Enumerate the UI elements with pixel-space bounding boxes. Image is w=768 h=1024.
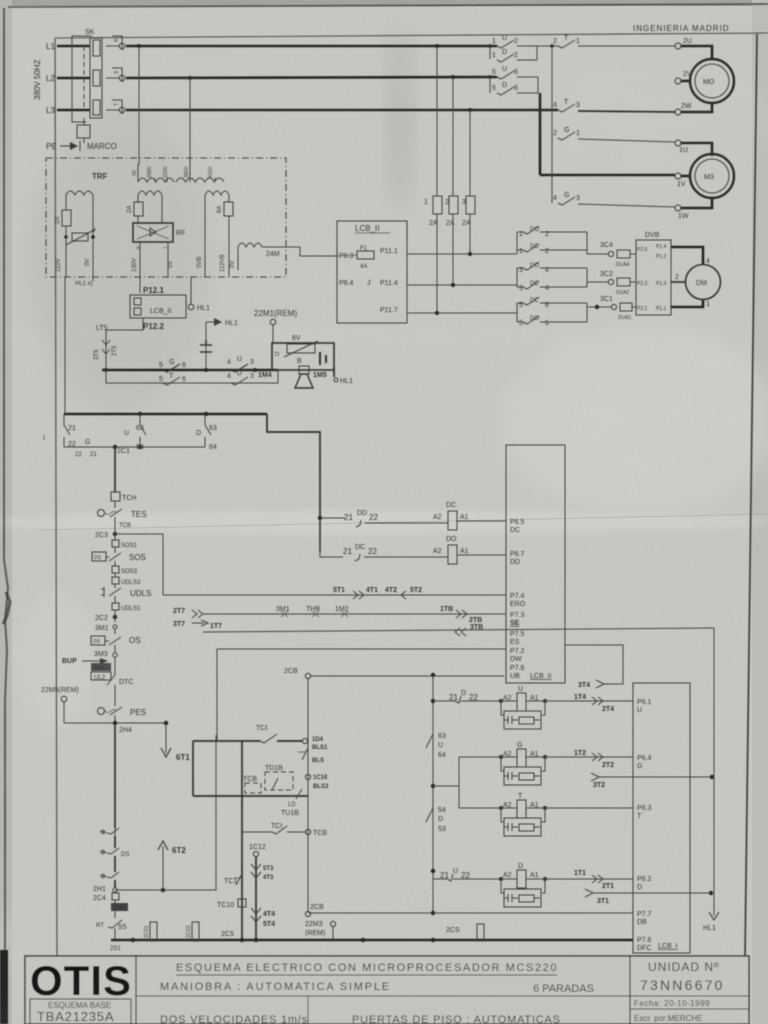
logo OTIS xyxy=(30,957,132,1004)
wire main bus from TRF xyxy=(64,277,66,414)
pin P11.4 xyxy=(380,280,517,287)
fuse F1 4A xyxy=(337,246,374,270)
fuse F2 2A xyxy=(445,196,458,285)
contact A1 xyxy=(100,828,119,836)
terminal 2U xyxy=(675,38,712,59)
label ESQUEMA BASE xyxy=(30,999,131,1024)
relay coil U xyxy=(499,686,547,711)
suppressor D xyxy=(501,879,545,907)
wire D output 1T1 2T1 xyxy=(545,870,633,890)
wire ERO 5T1 4T1 4T2 5T2 xyxy=(163,587,506,599)
terminal SOS3 xyxy=(112,566,138,577)
wire U output 1T4 2T4 xyxy=(545,694,633,713)
wire bus step to feeder xyxy=(267,414,320,552)
contact 1U2 xyxy=(492,35,537,48)
node 2CB bottom xyxy=(305,904,324,917)
pin P7.7 DB xyxy=(308,911,652,926)
node 3C2 xyxy=(587,271,636,296)
label TU1B xyxy=(281,802,299,817)
terminal 2W xyxy=(675,103,712,115)
label 2S1 xyxy=(110,946,121,952)
wire U/D pair1 to T contacts xyxy=(537,45,558,47)
pin P8.3 xyxy=(339,253,354,260)
arrow 6T2 xyxy=(158,841,186,890)
label 2HB xyxy=(91,663,111,672)
contact pair 1 DO 2 xyxy=(517,226,587,255)
terminal 2CS3 xyxy=(186,922,199,941)
wire 110V xyxy=(56,237,66,277)
label UL2 xyxy=(91,672,111,681)
wire G T feeder xyxy=(431,757,459,808)
TRF secondary 1 110V xyxy=(55,191,93,243)
contact 4D3 xyxy=(227,370,254,385)
pin P11.1 xyxy=(380,248,517,256)
scan corner blob xyxy=(0,950,8,1024)
arrow BUP xyxy=(62,658,108,665)
label TCB xyxy=(115,523,131,531)
contact 5G6 xyxy=(159,359,186,372)
wire left leg xyxy=(192,741,194,796)
wire to HL1 lamp xyxy=(334,367,353,385)
wire 0V from RF xyxy=(168,242,174,277)
fuse KS2 xyxy=(111,903,128,918)
contact 5U6 xyxy=(492,66,538,79)
terminal 1V xyxy=(675,173,690,188)
relay coil DD xyxy=(430,536,506,564)
board LCB_I xyxy=(633,683,690,953)
contact pair 5 DC 6 xyxy=(517,297,587,327)
contact A2 DS xyxy=(100,836,129,858)
suppressor U xyxy=(501,701,545,729)
wire L2 drop to TRF primary tap xyxy=(188,76,192,178)
wire end HL1 x xyxy=(75,277,93,287)
label 2C5 xyxy=(221,931,234,938)
unit number xyxy=(640,960,725,993)
border top outer xyxy=(8,4,768,7)
board LCB_II aux xyxy=(130,295,186,318)
pin P7.3 SE xyxy=(510,612,525,627)
contact TC1 xyxy=(224,874,242,885)
node 3C4 xyxy=(587,242,636,268)
motor DM xyxy=(686,265,721,300)
pin P6.7 DD xyxy=(510,551,525,566)
contact 4U3 xyxy=(227,356,254,372)
terminal 22M3(REM) xyxy=(305,921,336,940)
contact DTC xyxy=(107,661,133,706)
pin P6.1 U xyxy=(637,699,652,714)
wire DVB to DM left xyxy=(671,274,686,282)
terminal 1C16 BLS3 xyxy=(305,774,329,790)
node 3M3 xyxy=(94,650,117,661)
board LCB_II main xyxy=(337,221,407,323)
diode to HL1 xyxy=(200,322,212,370)
contact TCI upper xyxy=(193,725,303,743)
wire xyxy=(114,501,116,508)
switch UDLS xyxy=(101,587,151,603)
wire 2CB vertical xyxy=(307,679,309,911)
contact 1D2 xyxy=(488,44,537,62)
border top inner xyxy=(55,33,768,38)
wire L2 xyxy=(57,77,497,78)
switch SOS xyxy=(92,552,146,566)
contact 4G3 xyxy=(553,192,675,207)
wire L3 xyxy=(57,109,558,112)
arrow 3T4 xyxy=(565,645,623,689)
relay coil G xyxy=(459,742,547,767)
wire 3T2 to HL1 riser xyxy=(591,773,714,789)
relay coil DC xyxy=(430,502,506,530)
contact D 54/53 xyxy=(426,789,446,869)
splice 5T3 4T3 xyxy=(251,857,274,940)
terminal 2C4 xyxy=(93,893,119,903)
title block frame xyxy=(25,956,749,1024)
wire cluster bottom xyxy=(193,789,308,799)
bottom row xyxy=(160,1014,561,1024)
node 3C1 xyxy=(587,296,636,321)
contact TCI lower xyxy=(242,823,305,834)
wire U/D pair2 down to 1V xyxy=(540,93,675,175)
contact U 63/64 xyxy=(117,414,146,455)
motor MO xyxy=(690,59,734,103)
suppressor G xyxy=(501,757,545,785)
TRF primary winding xyxy=(132,164,224,182)
contact 5S xyxy=(96,920,127,940)
terminal TC10 xyxy=(217,899,246,909)
splice LT5 xyxy=(94,325,118,360)
pin P6.4 G xyxy=(637,755,652,770)
wire chain lower xyxy=(114,723,116,828)
wire 130V to P12.1 xyxy=(132,242,140,293)
wire L1 drop to TRF primary xyxy=(137,44,141,165)
pin P6.3 T xyxy=(637,805,652,820)
wire drop to fuse 3 xyxy=(468,108,472,196)
contact 21 U 22 xyxy=(431,868,501,881)
contact 2T1 xyxy=(553,35,675,48)
wire DVB to DM top xyxy=(671,247,710,265)
arrow 6T1 xyxy=(161,721,190,762)
terminal HL1 xyxy=(188,277,210,312)
pin P7.5 ES xyxy=(510,631,525,646)
terminal 1C12 xyxy=(249,844,266,857)
border right xyxy=(745,34,757,956)
varistor xyxy=(64,228,96,245)
terminal 22M1(REM) xyxy=(254,309,297,343)
pin P8.4 xyxy=(339,280,371,287)
riser to G contacts xyxy=(550,44,554,203)
contact pair 3 DO 4 xyxy=(517,262,587,292)
terminal 2V xyxy=(675,71,692,84)
node 2C2 xyxy=(95,615,117,622)
battery B 6V xyxy=(272,335,334,370)
contact A3 xyxy=(100,856,119,888)
wire TC column xyxy=(241,741,243,939)
splice 4T4 5T4 xyxy=(251,908,275,928)
wire branch to ERO xyxy=(115,534,163,595)
pin P6.2 D xyxy=(637,876,652,891)
terminal 2CS1 xyxy=(144,922,157,941)
terminal UDLS1 xyxy=(112,603,141,615)
terminal SOS1 xyxy=(112,540,138,553)
contact BLS xyxy=(298,748,324,764)
pin P7.6 DFC xyxy=(637,937,678,952)
terminal 1W xyxy=(675,198,712,220)
node 3M1 xyxy=(95,625,117,634)
wire T output xyxy=(545,807,633,809)
terminal 1D4 BLS1 xyxy=(302,737,328,751)
switch TES xyxy=(98,509,147,524)
title text xyxy=(176,962,558,975)
TRF secondary 4 24M xyxy=(230,243,337,270)
wire DVB to DM bottom xyxy=(671,299,710,308)
wire SE with 2T7 3T7 1T7 splices xyxy=(173,606,506,630)
border left xyxy=(55,38,57,956)
TRF secondary 2 rectifier branch xyxy=(127,191,162,223)
contact 21 D 22 xyxy=(431,690,501,703)
wire bus horizontal xyxy=(64,412,267,416)
arrow HL1 xyxy=(206,318,238,327)
wire 0V xyxy=(85,243,93,277)
contact 21 DD 22 row1 xyxy=(318,510,430,527)
wire G output 1T2 2T2 xyxy=(545,750,633,769)
wire relay feeder xyxy=(431,673,435,913)
date xyxy=(634,999,710,1023)
terminal 22M5(REM) xyxy=(41,687,79,723)
TRF secondary 3 110VB xyxy=(197,191,233,277)
terminal 2CS xyxy=(446,924,484,941)
PE MARCO xyxy=(46,141,117,151)
wire bottom bus xyxy=(111,938,633,942)
connector P12.2 xyxy=(106,318,164,370)
contact 5D6 xyxy=(488,75,538,95)
rectifier RF xyxy=(133,223,185,252)
relay coil T xyxy=(459,793,547,818)
terminal TCB node xyxy=(305,829,327,837)
contact U 63/64 xyxy=(426,704,446,775)
connector P12.1 xyxy=(143,286,164,295)
contact D 63/64 xyxy=(196,414,217,451)
scan left edge xyxy=(4,8,8,952)
motor M3 xyxy=(690,154,734,198)
fuse TCH xyxy=(111,492,136,502)
suppressor T xyxy=(501,808,545,836)
wire drop to fuse 1 xyxy=(435,44,439,196)
wire L1 xyxy=(57,45,497,48)
contact 21 DC 22 row2 xyxy=(320,518,430,561)
main switch SK xyxy=(72,29,125,122)
pin P11.7 xyxy=(380,307,517,315)
pin P7.4 ERO xyxy=(510,593,526,608)
timer TCB xyxy=(243,776,261,793)
bell 1M5 xyxy=(295,366,327,388)
node 2CB top xyxy=(284,668,504,679)
fuse F3 2A xyxy=(462,196,475,254)
contact G 21/22 xyxy=(43,414,97,458)
node 2H4 xyxy=(64,721,166,734)
rectangle loop 6T2 xyxy=(115,735,216,892)
switch OS xyxy=(91,636,141,650)
pin P7.6 DB xyxy=(510,665,551,680)
wire row 2 xyxy=(106,370,278,383)
contact 4T3 xyxy=(553,99,675,112)
node 2C3 xyxy=(95,531,117,540)
drive unit DVB xyxy=(636,232,671,315)
switch PES xyxy=(98,707,147,723)
wire drop to fuse 2 xyxy=(451,75,455,196)
terminal UDLS3 xyxy=(112,577,141,588)
board LCB_II I/O xyxy=(506,445,565,683)
node 2H1 xyxy=(93,886,117,893)
wire HL1 riser xyxy=(703,628,719,932)
contact 5T6 xyxy=(159,373,186,385)
transformer TRF enclosure xyxy=(46,158,286,277)
relay coil D xyxy=(499,863,547,888)
contact 2G1 xyxy=(553,127,675,142)
wire chain top xyxy=(114,447,116,492)
terminal 1U xyxy=(675,140,712,156)
subtitle xyxy=(160,981,594,995)
wire battery bus xyxy=(102,368,278,372)
wire DW xyxy=(217,649,506,741)
wire ES crossing to HL1 riser xyxy=(203,624,714,636)
timer TC1B xyxy=(265,765,293,790)
wire 3T1 to HL1 riser xyxy=(585,889,713,905)
wire bottom of contacts xyxy=(64,445,205,449)
ground fuse box to PE xyxy=(77,118,90,143)
fuse F1 2A xyxy=(424,196,442,313)
pin P6.5 DC xyxy=(510,519,525,534)
pin P7.2 DW xyxy=(510,648,525,663)
